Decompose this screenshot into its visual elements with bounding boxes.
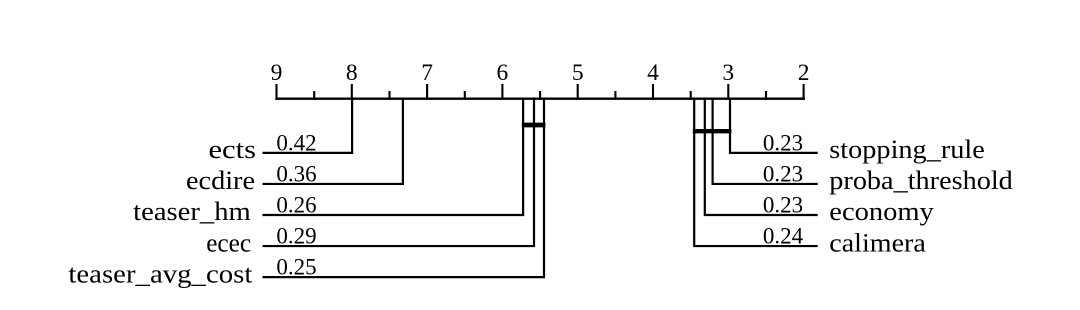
svg-text:0.36: 0.36 <box>276 161 316 186</box>
svg-text:calimera: calimera <box>829 227 926 257</box>
svg-text:5: 5 <box>572 60 584 86</box>
connector line ecec (rank 5.58) <box>263 99 535 246</box>
major tick 2 <box>803 84 805 100</box>
connector line ecdire (rank 7.32) <box>263 99 403 184</box>
svg-text:0.23: 0.23 <box>763 192 803 217</box>
svg-text:0.42: 0.42 <box>276 130 316 155</box>
minor tick 5.5 <box>539 91 541 100</box>
connector line proba_threshold (rank 3.21) <box>713 99 818 184</box>
svg-text:7: 7 <box>421 60 433 86</box>
connector line calimera (rank 3.45) <box>694 99 818 246</box>
svg-text:9: 9 <box>271 60 283 86</box>
svg-text:ecec: ecec <box>206 227 251 257</box>
connector line stopping_rule (rank 2.98) <box>730 99 818 153</box>
clique bar left group <box>522 123 546 128</box>
svg-text:0.23: 0.23 <box>763 161 803 186</box>
svg-text:0.26: 0.26 <box>276 192 316 217</box>
major tick 4 <box>652 84 654 100</box>
svg-text:2: 2 <box>798 60 810 86</box>
svg-text:0.25: 0.25 <box>276 255 316 280</box>
connector line ects (rank 8.0) <box>263 99 353 153</box>
clique bar right group <box>693 129 732 133</box>
connector line teaser_hm (rank 5.73) <box>263 99 524 215</box>
svg-text:0.23: 0.23 <box>763 130 803 155</box>
svg-text:economy: economy <box>829 196 934 226</box>
major tick 7 <box>426 84 428 100</box>
minor tick 6.5 <box>464 91 466 100</box>
minor tick 8.5 <box>313 91 315 100</box>
svg-text:4: 4 <box>647 60 659 86</box>
svg-text:teaser_avg_cost: teaser_avg_cost <box>68 258 253 288</box>
minor tick 2.5 <box>765 91 767 100</box>
svg-text:proba_threshold: proba_threshold <box>829 165 1013 195</box>
svg-text:teaser_hm: teaser_hm <box>133 196 251 226</box>
major tick 3 <box>727 84 729 100</box>
major tick 5 <box>577 84 579 100</box>
svg-text:0.29: 0.29 <box>276 223 316 248</box>
rank axis line <box>275 97 805 99</box>
minor tick 4.5 <box>614 91 616 100</box>
major tick 8 <box>351 84 353 100</box>
svg-text:stopping_rule: stopping_rule <box>829 134 985 164</box>
minor tick 3.5 <box>690 91 692 100</box>
svg-text:6: 6 <box>497 60 509 86</box>
svg-text:ects: ects <box>209 134 257 164</box>
minor tick 7.5 <box>388 91 390 100</box>
major tick 6 <box>501 84 503 100</box>
major tick 9 <box>275 84 277 100</box>
connector line economy (rank 3.31) <box>705 99 818 215</box>
svg-text:0.24: 0.24 <box>763 223 804 248</box>
connector line teaser_avg_cost (rank 5.45) <box>263 99 545 277</box>
svg-text:3: 3 <box>722 60 734 86</box>
svg-text:ecdire: ecdire <box>186 165 255 195</box>
svg-text:8: 8 <box>346 60 358 86</box>
